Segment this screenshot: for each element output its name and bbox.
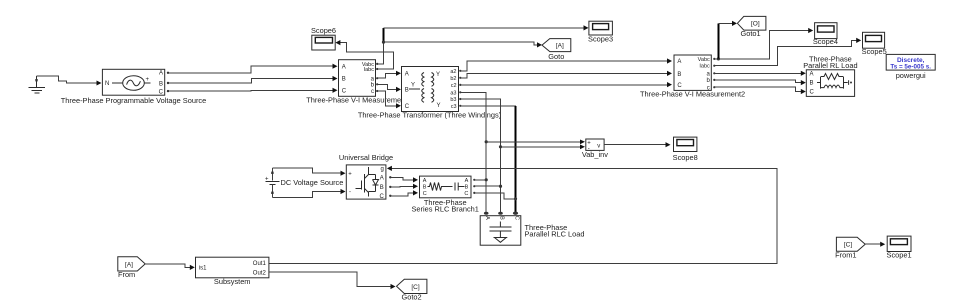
wire b2out to RL load B — [714, 80, 806, 85]
wire branch B out to node b3 — [473, 185, 500, 187]
IGBT + diode icon inside bridge — [368, 167, 370, 197]
block: DC Voltage Source (battery) — [265, 168, 343, 198]
svg-text:C: C — [423, 191, 427, 197]
scope Scope4 — [813, 23, 838, 46]
svg-text:Scope4: Scope4 — [813, 37, 838, 46]
wire branch C out to node c3 — [473, 192, 515, 199]
ground symbol G1 — [29, 76, 46, 93]
svg-text:C: C — [464, 191, 468, 197]
block: Three-Phase Transformer (Three Windings) — [358, 67, 501, 120]
wire c3 down to RLC load C (thick, node with branch C) — [460, 106, 517, 213]
svg-text:Scope1: Scope1 — [887, 251, 912, 260]
goto tag Goto [A] — [542, 39, 571, 61]
svg-text:A: A — [810, 72, 814, 78]
scope Scope6 — [311, 26, 336, 50]
svg-text:From: From — [118, 270, 135, 279]
svg-text:-: - — [349, 190, 351, 196]
svg-text:Goto: Goto — [548, 52, 564, 61]
svg-text:[A]: [A] — [556, 42, 564, 49]
svg-text:Parallel RL Load: Parallel RL Load — [803, 61, 857, 70]
svg-text:C: C — [342, 89, 347, 95]
svg-text:B: B — [380, 185, 384, 191]
wire Vab_inv to Scope8 — [604, 142, 670, 147]
wire Out2 to Goto2 — [269, 272, 396, 289]
wire ground to N input of voltage source — [37, 76, 102, 86]
wire junction up to Goto1 (thick) — [718, 21, 737, 59]
block: voltage measurement Vab_inv — [582, 139, 608, 159]
svg-text:Three-Phase Transformer (Three: Three-Phase Transformer (Three Windings) — [358, 111, 501, 120]
svg-text:Y: Y — [437, 103, 441, 109]
svg-text:g: g — [380, 167, 383, 173]
wire a2out to RL load A — [714, 71, 806, 76]
wire battery - to bridge - — [272, 189, 345, 198]
wire From1 to Scope1 — [865, 242, 885, 247]
block: powergui (Discrete) — [886, 54, 935, 80]
block: Three-Phase V-I Measurement — [339, 60, 379, 97]
wire a2 to V-I Measurement2 A — [460, 58, 672, 70]
svg-text:Out1: Out1 — [253, 261, 267, 267]
scope Scope1 — [887, 236, 912, 260]
svg-text:Iabc: Iabc — [699, 64, 710, 70]
wire b2 to V-I Measurement2 B — [460, 71, 672, 78]
svg-text:Iabc: Iabc — [364, 67, 375, 73]
svg-text:A: A — [405, 72, 409, 78]
svg-text:Scope3: Scope3 — [588, 35, 613, 44]
svg-text:Series RLC Branch1: Series RLC Branch1 — [412, 205, 479, 214]
scope Scope3 — [588, 21, 613, 43]
svg-text:A: A — [423, 178, 427, 184]
svg-text:Y: Y — [411, 83, 415, 89]
svg-text:B: B — [677, 72, 681, 78]
svg-text:Three-Phase Programmable Volta: Three-Phase Programmable Voltage Source — [61, 96, 206, 105]
svg-text:Y: Y — [436, 72, 440, 78]
block: Three-Phase Series RLC Branch1 — [412, 176, 479, 213]
svg-text:Subsystem: Subsystem — [214, 277, 251, 286]
wire c2out to RL load C — [714, 87, 806, 94]
svg-text:C: C — [379, 194, 384, 200]
svg-text:powergui: powergui — [896, 71, 926, 80]
wire bridge B to branch B — [389, 184, 418, 189]
svg-text:B: B — [342, 77, 346, 83]
svg-text:C: C — [405, 104, 410, 110]
block: Three-Phase V-I Measurement2 — [640, 55, 745, 99]
svg-text:B: B — [423, 184, 427, 190]
wire node b3 to Vab_inv - input — [501, 145, 586, 150]
svg-text:+: + — [265, 177, 269, 183]
svg-text:Out2: Out2 — [253, 270, 267, 276]
svg-text:Goto2: Goto2 — [402, 293, 422, 302]
svg-text:B: B — [159, 81, 163, 87]
from tag From1 [C] — [835, 237, 865, 259]
svg-text:+: + — [348, 172, 352, 178]
svg-text:[C]: [C] — [844, 242, 853, 249]
svg-text:c2: c2 — [451, 83, 457, 89]
wire branch A out to node a3 — [473, 179, 486, 181]
svg-text:B: B — [810, 81, 814, 87]
wire c2 to V-I Measurement2 C — [460, 82, 672, 87]
block: Three-Phase Parallel RL Load — [803, 54, 857, 96]
block: Subsystem — [196, 257, 269, 286]
svg-text:b3: b3 — [450, 97, 456, 103]
svg-text:A: A — [465, 178, 469, 184]
wire bridge A to branch A — [389, 176, 418, 182]
wire V-I a output to transformer A — [377, 71, 401, 79]
svg-text:B: B — [405, 88, 409, 94]
wire phase C source to V-I measurement — [169, 88, 338, 93]
svg-text:C: C — [810, 90, 815, 96]
wire node a3 to Vab_inv + input — [486, 140, 585, 145]
wire gate loop: Out1 right, up, left into bridge g — [269, 166, 777, 264]
svg-text:c: c — [371, 89, 374, 95]
svg-text:Scope8: Scope8 — [673, 153, 698, 162]
wire Iabc2 to Scope5 — [714, 38, 861, 66]
svg-text:B: B — [499, 216, 505, 220]
svg-text:C: C — [677, 83, 682, 89]
svg-text:A: A — [342, 64, 346, 70]
svg-text:A: A — [677, 59, 681, 65]
wire phase B source to V-I measurement — [169, 76, 338, 83]
svg-text:[O]: [O] — [751, 21, 760, 28]
goto tag Goto2 [C] — [397, 279, 427, 302]
svg-text:A: A — [380, 176, 384, 182]
svg-text:Ts = 5e-005 s.: Ts = 5e-005 s. — [890, 64, 931, 71]
svg-text:Three-Phase V-I Measurement2: Three-Phase V-I Measurement2 — [640, 90, 745, 99]
block: Universal Bridge — [339, 153, 393, 200]
svg-text:N: N — [105, 81, 109, 87]
wire battery + to bridge + — [272, 168, 345, 176]
svg-text:Parallel RLC Load: Parallel RLC Load — [525, 230, 585, 239]
svg-text:Vab_inv: Vab_inv — [582, 150, 608, 159]
wire Iabc to Scope6 (flipped scope, arrow points left) — [335, 40, 393, 69]
goto tag Goto1 [O] — [737, 16, 766, 38]
svg-text:A: A — [484, 216, 490, 220]
svg-text:Scope5: Scope5 — [862, 47, 887, 56]
svg-text:c3: c3 — [451, 104, 457, 110]
svg-text:C: C — [514, 216, 520, 220]
svg-text:From1: From1 — [835, 250, 856, 259]
from tag From [A] — [118, 257, 145, 279]
svg-text:b2: b2 — [450, 76, 456, 82]
svg-text:Goto1: Goto1 — [741, 29, 761, 38]
svg-text:Scope6: Scope6 — [311, 26, 336, 35]
svg-text:[A]: [A] — [125, 261, 133, 268]
scope Scope8 — [673, 137, 698, 162]
svg-text:[C]: [C] — [411, 284, 420, 291]
wire Vabc output up with junction — [377, 28, 385, 64]
svg-text:a2: a2 — [450, 69, 456, 75]
wire V-I c output to transformer C — [377, 91, 401, 108]
svg-text:is1: is1 — [199, 266, 207, 272]
wire From to Subsystem — [145, 264, 195, 270]
wire bridge C to branch C — [389, 190, 418, 197]
block: Three-Phase Parallel RLC Load (bottom) — [480, 212, 584, 246]
svg-text:a3: a3 — [450, 90, 456, 96]
wire Vabc branch to Goto — [384, 42, 543, 47]
wire phase A source to V-I measurement — [169, 64, 338, 73]
wire Vabc to Scope3 — [384, 25, 589, 30]
svg-text:C: C — [159, 89, 164, 95]
svg-text:Universal Bridge: Universal Bridge — [339, 153, 393, 162]
svg-text:Vabc: Vabc — [698, 57, 710, 63]
wire Vabc2 to Scope4 with junction to Goto1 — [714, 28, 813, 61]
svg-text:DC Voltage Source: DC Voltage Source — [281, 178, 344, 187]
svg-text:+: + — [146, 77, 150, 83]
block: Three-Phase Programmable Voltage Source — [61, 69, 206, 105]
wire a3 down to RLC load A (node with branch A and Vab_inv +) — [460, 92, 488, 212]
svg-text:B: B — [465, 184, 469, 190]
svg-text:v: v — [597, 143, 600, 149]
svg-text:A: A — [159, 71, 163, 77]
scope Scope5 — [862, 32, 887, 56]
wire b3 down to RLC load B (node with branch B and Vab_inv -) — [460, 99, 502, 213]
wire V-I b output to transformer B — [377, 84, 401, 92]
